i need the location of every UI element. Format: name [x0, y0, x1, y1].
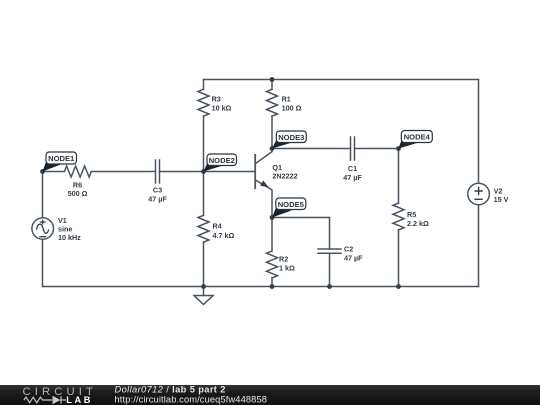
svg-text:LAB: LAB	[66, 395, 93, 405]
svg-text:NODE4: NODE4	[404, 133, 431, 142]
svg-text:1 kΩ: 1 kΩ	[279, 264, 295, 273]
svg-text:http://circuitlab.com/cueq5fw4: http://circuitlab.com/cueq5fw448858	[115, 394, 268, 404]
svg-text:NODE5: NODE5	[278, 200, 305, 209]
svg-text:R2: R2	[279, 254, 288, 263]
svg-text:C2: C2	[344, 245, 353, 254]
svg-text:R5: R5	[407, 210, 416, 219]
svg-text:47 µF: 47 µF	[343, 173, 362, 182]
svg-text:R4: R4	[213, 222, 222, 231]
svg-text:R1: R1	[282, 94, 291, 103]
svg-text:47 µF: 47 µF	[344, 253, 363, 262]
svg-text:2.2 kΩ: 2.2 kΩ	[407, 219, 429, 228]
svg-text:10 kΩ: 10 kΩ	[212, 104, 232, 113]
svg-text:500 Ω: 500 Ω	[68, 189, 88, 198]
svg-text:NODE1: NODE1	[48, 154, 75, 163]
svg-text:47 µF: 47 µF	[148, 194, 167, 203]
svg-text:10 kHz: 10 kHz	[58, 233, 81, 242]
svg-text:100 Ω: 100 Ω	[282, 104, 302, 113]
svg-text:15 V: 15 V	[494, 195, 509, 204]
svg-text:2N2222: 2N2222	[272, 171, 297, 180]
svg-text:Dollar0712 / lab 5 part 2: Dollar0712 / lab 5 part 2	[115, 385, 226, 395]
svg-text:4.7 kΩ: 4.7 kΩ	[213, 231, 235, 240]
svg-text:NODE2: NODE2	[209, 156, 235, 165]
svg-text:R3: R3	[212, 94, 221, 103]
svg-text:C1: C1	[348, 164, 357, 173]
svg-text:C3: C3	[153, 185, 162, 194]
svg-text:NODE3: NODE3	[278, 133, 304, 142]
